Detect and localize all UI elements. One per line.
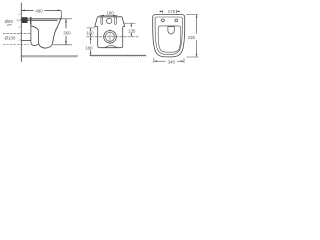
dim 435 — [186, 14, 198, 16]
body top edge — [98, 16, 123, 18]
floor under side view — [21, 55, 78, 57]
dim 100/180 left vertical — [90, 28, 92, 30]
svg-text:Ø90: Ø90 — [5, 19, 14, 24]
svg-text:360: 360 — [63, 30, 71, 35]
bowl opening — [158, 26, 181, 52]
floor hatch left — [23, 56, 77, 58]
dim 490 line — [22, 9, 34, 11]
outlet shield — [168, 27, 174, 35]
dim 135 right vertical — [130, 23, 132, 27]
wall hatch — [18, 13, 21, 41]
dash-dot pipe line upper — [3, 33, 31, 35]
dim 360 top ext — [62, 18, 72, 20]
left shoulder — [95, 26, 98, 28]
lower body — [98, 27, 123, 48]
bolt slot left — [101, 17, 103, 25]
bottom inner arc — [105, 46, 118, 48]
dim 360 line — [65, 19, 67, 28]
outlet inner circle — [106, 32, 115, 41]
inlet circle — [107, 18, 112, 23]
svg-text:435: 435 — [188, 35, 196, 40]
pan bottom bowl — [39, 43, 53, 48]
dash-dot pipe line lower — [3, 44, 29, 46]
svg-text:180: 180 — [106, 11, 114, 16]
label leader mark — [7, 24, 12, 27]
dash leader 90 — [17, 19, 23, 21]
dim 180 top line — [99, 15, 117, 17]
floor middle — [90, 54, 147, 56]
dim 340 — [153, 58, 155, 63]
pan front profile — [53, 16, 62, 43]
left flare — [95, 17, 98, 27]
outlet centerline vertical — [109, 29, 111, 44]
inner rim — [155, 17, 182, 54]
svg-text:135: 135 — [128, 28, 136, 33]
bolt slot right — [115, 17, 117, 25]
svg-text:340: 340 — [168, 59, 176, 64]
wall — [20, 3, 22, 63]
svg-text:Ø100: Ø100 — [5, 36, 16, 41]
outlet outer circle — [104, 31, 117, 44]
trap back vertical — [31, 17, 39, 45]
svg-text:490: 490 — [35, 8, 43, 13]
mounting bracket — [22, 17, 28, 23]
bolt line — [30, 17, 32, 25]
outlet pipe bottom — [21, 40, 31, 42]
svg-text:180: 180 — [85, 46, 93, 51]
dim 360 bottom ext — [53, 44, 72, 46]
svg-text:175: 175 — [168, 9, 176, 14]
labels — [5, 8, 196, 64]
right flare — [122, 17, 125, 27]
bolt hole right — [175, 19, 178, 22]
pan seat top — [21, 18, 62, 20]
outer body — [153, 15, 185, 57]
svg-text:100: 100 — [86, 31, 94, 36]
trap inner curve — [31, 26, 39, 44]
dim 135 top ext — [124, 22, 135, 24]
right shoulder — [123, 26, 125, 28]
pan seat lower line — [21, 19, 57, 21]
dim 490 ext right — [60, 11, 62, 16]
outlet centerline horizontal — [87, 36, 139, 38]
dim 175 line — [160, 10, 163, 12]
dim 100 top ext — [87, 27, 95, 29]
bolt hole left — [162, 19, 165, 22]
